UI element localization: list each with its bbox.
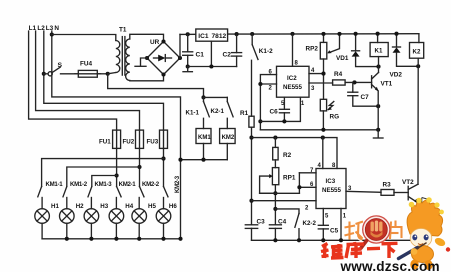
- lamp H4: [109, 198, 134, 239]
- junction H3 return: [89, 237, 93, 241]
- op-amp timer IC2 NE555: [277, 66, 310, 97]
- junction C7 emitter: [376, 104, 380, 108]
- capacitor C6: [270, 97, 290, 121]
- junction RP2 wiper rail: [337, 32, 341, 36]
- diode VD1: [336, 34, 379, 67]
- transistor VT2: [402, 179, 418, 240]
- contact KM1-3: [88, 181, 112, 197]
- junction C1 top: [186, 32, 190, 36]
- wire IC2 pin 3 to R4: [309, 82, 333, 84]
- junction pin6 pin7: [297, 185, 301, 189]
- fuse FU2: [123, 130, 144, 148]
- fuse FU3: [147, 130, 168, 148]
- wire FU4 to primary junction: [97, 73, 107, 75]
- wire DC rail to IC1: [180, 33, 196, 35]
- svg-text:IC3: IC3: [326, 178, 336, 185]
- wire IC2 pin 6: [260, 75, 276, 130]
- svg-text:KM2: KM2: [222, 135, 235, 141]
- wire K1-2 to R1: [251, 60, 253, 116]
- switch K1-2: [252, 34, 273, 60]
- wire line-B to VT1 emitter ground: [260, 129, 378, 131]
- wire IC3 pin 3 to R3: [346, 191, 381, 192]
- junction RP2 top: [321, 32, 325, 36]
- junction C5 ground: [321, 238, 325, 242]
- junction RG bottom: [321, 128, 325, 132]
- junction pins 2-6 tie: [258, 82, 262, 86]
- wire IC1 ground pin: [210, 41, 212, 66]
- wire L1 phase line: [29, 31, 117, 130]
- capacitor C4: [269, 218, 286, 240]
- svg-text:R4: R4: [334, 71, 343, 78]
- junction pin1 ground: [339, 238, 343, 242]
- junction VD2 K2: [416, 64, 420, 68]
- svg-text:H5: H5: [148, 203, 156, 210]
- watermark zhao char: [345, 222, 363, 240]
- svg-text:H2: H2: [76, 203, 84, 210]
- wire FU3 column to H6: [163, 148, 165, 186]
- lamp H3: [84, 198, 109, 239]
- wire rail3 to H3: [92, 176, 117, 187]
- resistor R1: [240, 110, 254, 127]
- junction H6 return: [161, 237, 165, 241]
- junction H2 return: [65, 237, 69, 241]
- capacitor C1: [183, 34, 205, 66]
- svg-text:VD1: VD1: [336, 55, 349, 62]
- svg-text:FU2: FU2: [123, 139, 135, 146]
- wire L2 phase line: [36, 31, 140, 130]
- svg-text:KM2-1: KM2-1: [119, 181, 137, 188]
- svg-text:KM1-3: KM1-3: [95, 181, 113, 188]
- svg-text:H3: H3: [100, 203, 108, 210]
- wire line3 C4 to K2-2: [275, 209, 299, 214]
- wire rail2 to H2: [67, 167, 140, 187]
- contact KM2-3: [164, 175, 182, 196]
- wire IC3 pin 1 to ground rail: [340, 209, 342, 241]
- wire N phase line and return to lamp rail: [52, 31, 181, 239]
- svg-text:KM2-2: KM2-2: [142, 181, 160, 188]
- junction R1 trigger line: [249, 199, 253, 203]
- contactor coil KM1: [196, 129, 211, 160]
- svg-text:H4: H4: [125, 203, 133, 210]
- svg-text:FU3: FU3: [147, 139, 159, 146]
- rail C 12V distribution: [252, 138, 338, 169]
- junction R1 rail-C: [249, 136, 253, 140]
- svg-text:H6: H6: [169, 203, 177, 210]
- junction transformer primary bottom: [106, 72, 110, 76]
- watermark magnifier logo: [361, 216, 390, 248]
- junction pin4 RP2: [321, 72, 325, 76]
- svg-text:H1: H1: [51, 203, 59, 210]
- junction IC2 pin8 rail: [290, 32, 294, 36]
- lamp H6: [156, 198, 177, 239]
- wire K2 to VT2 collector: [417, 66, 419, 184]
- fuse FU4: [75, 61, 101, 78]
- switch K1-1: [186, 97, 210, 128]
- wire contactor return rail: [181, 159, 228, 161]
- svg-text:K1: K1: [375, 48, 383, 55]
- capacitor C7: [348, 82, 378, 106]
- contact KM2-2: [140, 181, 160, 197]
- wire primary junction down to contactor feed: [108, 74, 204, 98]
- junction C1 bottom: [186, 64, 190, 68]
- junction VD1 K1: [376, 65, 380, 69]
- potentiometer RP1: [260, 160, 296, 193]
- wire pin7 column: [298, 173, 300, 194]
- wire lamp return rail: [42, 238, 180, 240]
- svg-text:K2-2: K2-2: [303, 220, 317, 227]
- junction rail3 FU1: [115, 173, 119, 177]
- wire IC3 pin 7: [299, 172, 316, 174]
- svg-text:C7: C7: [361, 94, 370, 101]
- svg-text:KM1-2: KM1-2: [70, 181, 88, 188]
- wire secondary bottom to bridge: [130, 75, 164, 81]
- wire RP2 bottom to RG: [323, 59, 325, 99]
- junction rail1 FU3: [161, 157, 165, 161]
- svg-text:IC2: IC2: [287, 75, 297, 82]
- transformer T1: [108, 27, 130, 81]
- wire IC3 pin 6: [299, 186, 316, 188]
- junction C2 top: [235, 32, 239, 36]
- potentiometer RP2: [306, 34, 340, 59]
- junction KM1 return: [201, 158, 205, 162]
- wire S to FU4: [61, 73, 79, 75]
- ground VT1: [373, 130, 383, 138]
- svg-text:FU4: FU4: [80, 61, 93, 68]
- junction RP1 bottom: [273, 191, 277, 195]
- junction N top rail: [50, 32, 54, 36]
- wire IC2 pin 4: [309, 73, 324, 75]
- lamp H2: [60, 198, 85, 239]
- contact KM1-1: [38, 181, 63, 197]
- ground under C1: [183, 67, 192, 72]
- svg-text:T1: T1: [119, 27, 127, 34]
- contact KM2-1: [117, 181, 137, 197]
- svg-text:C2: C2: [223, 52, 232, 59]
- svg-text:NE555: NE555: [283, 84, 302, 91]
- svg-text:K1-1: K1-1: [186, 110, 200, 117]
- watermark mascot: [399, 197, 451, 270]
- wire 555 ground rail: [252, 239, 418, 241]
- svg-text:C5: C5: [330, 228, 339, 235]
- svg-text:K2: K2: [413, 49, 421, 56]
- svg-text:RP2: RP2: [306, 46, 319, 53]
- contactor coil KM2: [220, 129, 236, 160]
- junction lamp rail N corner: [178, 237, 182, 241]
- capacitor C3: [245, 218, 265, 240]
- svg-text:7812: 7812: [212, 33, 227, 40]
- svg-text:VT2: VT2: [402, 179, 414, 186]
- wire VT1 emitter to ground: [377, 106, 379, 130]
- svg-text:K1-2: K1-2: [259, 48, 273, 55]
- junction R2 top: [273, 136, 277, 140]
- contact KM1-2: [63, 181, 88, 197]
- junction C4 line3: [273, 207, 277, 211]
- svg-text:VD2: VD2: [390, 72, 403, 79]
- svg-text:RG: RG: [330, 114, 340, 121]
- junction N return rail: [178, 158, 182, 162]
- bridge rectifier UR: [145, 39, 182, 77]
- wire IC2 pin 2: [260, 83, 276, 85]
- junction K2-2 ground: [297, 238, 301, 242]
- watermark pian char: [390, 221, 402, 240]
- svg-text:UR: UR: [150, 39, 160, 46]
- wire power ground rail: [188, 66, 237, 68]
- svg-text:C3: C3: [257, 218, 266, 225]
- svg-text:NE555: NE555: [322, 187, 341, 194]
- junction contactor feed: [201, 95, 205, 99]
- junction H4 return: [114, 237, 118, 241]
- op-amp timer IC3 NE555: [316, 169, 346, 209]
- wire R4 to VT1 base: [345, 81, 372, 83]
- switch K2-1: [211, 97, 234, 128]
- wire rail1 to H1: [42, 159, 164, 187]
- junction H5 return: [137, 237, 141, 241]
- svg-text:KM2-3: KM2-3: [174, 175, 181, 193]
- svg-text:KM1: KM1: [198, 135, 211, 141]
- junction C6 bottom: [282, 119, 286, 123]
- watermark weiku text: [321, 242, 398, 258]
- resistor R2: [273, 138, 292, 160]
- junction IC3 pin4 rail: [321, 136, 325, 140]
- svg-text:R1: R1: [240, 110, 249, 117]
- wire R3 to VT2 base: [394, 192, 408, 194]
- junction K1 rail: [376, 32, 380, 36]
- svg-text:VT1: VT1: [381, 81, 393, 88]
- wire N top rail to transformer primary: [52, 35, 116, 41]
- junction R4 C7: [352, 80, 356, 84]
- fuse FU1: [99, 130, 121, 148]
- wire IC2 pin 8: [292, 34, 294, 66]
- wire FU2 column to H5: [139, 148, 141, 186]
- wire RP1 bottom: [274, 185, 276, 225]
- transistor VT1: [372, 73, 393, 107]
- wire IC1 output rail: [228, 33, 419, 35]
- junction VD2 rail: [394, 32, 398, 36]
- svg-text:FU1: FU1: [99, 139, 111, 146]
- resistor R4: [333, 71, 346, 85]
- junction VT1 ground: [376, 128, 380, 132]
- switch K2-2: [295, 213, 317, 240]
- wire contactor feed to K2-1: [204, 96, 228, 98]
- svg-text:C1: C1: [196, 52, 205, 59]
- wire bridge output up to DC rail: [179, 34, 181, 58]
- junction VD1 rail: [354, 32, 358, 36]
- svg-text:C6: C6: [270, 109, 279, 116]
- svg-text:S: S: [58, 62, 63, 69]
- capacitor C5: [318, 209, 338, 241]
- regulator IC1 7812: [196, 29, 228, 41]
- svg-text:K2-1: K2-1: [211, 108, 225, 115]
- relay K1: [370, 34, 388, 73]
- junction line-A left: [258, 119, 262, 123]
- wire line-A pin1 return: [260, 97, 300, 121]
- junction IC1 ground: [209, 64, 213, 68]
- capacitor C2: [223, 34, 242, 66]
- junction C4 ground: [273, 238, 277, 242]
- junction K1-2 top: [250, 32, 254, 36]
- photoresistor RG: [320, 99, 339, 130]
- junction L3 switch tap: [42, 72, 46, 76]
- wire L3 phase line: [44, 31, 164, 130]
- svg-text:R3: R3: [383, 182, 392, 189]
- wire secondary top to bridge: [130, 34, 164, 41]
- switch S: [44, 62, 63, 76]
- svg-text:IC1: IC1: [198, 33, 209, 40]
- svg-text:www.dzsc.com: www.dzsc.com: [340, 259, 440, 272]
- svg-text:C4: C4: [278, 218, 287, 225]
- wire FU1 column to H4: [116, 148, 118, 186]
- wire R1 to C3: [251, 127, 253, 225]
- wire trigger line2 to IC3 pin 2: [252, 200, 317, 202]
- svg-text:RP1: RP1: [283, 175, 296, 182]
- svg-text:R2: R2: [283, 152, 292, 159]
- junction rail2 FU2: [137, 165, 141, 169]
- lamp H1: [35, 198, 60, 239]
- relay K2: [410, 34, 424, 67]
- svg-text:KM1-1: KM1-1: [46, 181, 64, 188]
- diode VD2: [390, 34, 419, 79]
- svg-text:N: N: [54, 25, 59, 32]
- ground at bridge left: [135, 58, 147, 66]
- lamp H5: [132, 198, 157, 239]
- wire line1 to pin7: [260, 192, 300, 194]
- wire IC3 pin 4: [322, 138, 324, 169]
- resistor R3: [381, 182, 394, 196]
